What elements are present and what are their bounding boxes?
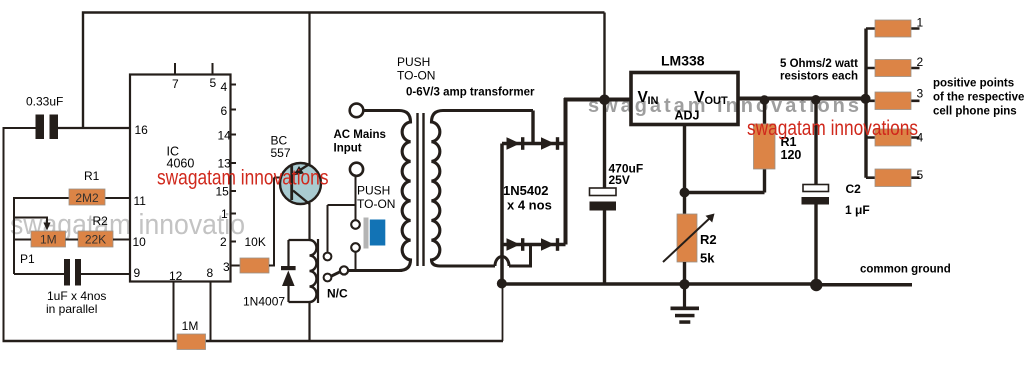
resistor R1 120 <box>754 124 802 169</box>
wire bridge left leg <box>500 144 504 280</box>
wire left rail <box>3 127 5 340</box>
svg-text:120: 120 <box>781 148 802 162</box>
svg-text:V: V <box>694 89 705 106</box>
svg-text:10: 10 <box>133 235 147 249</box>
wire top rail <box>83 13 605 129</box>
svg-text:5: 5 <box>210 76 217 90</box>
wire bridge top row <box>502 142 566 146</box>
diode D5 bridge bottom-right <box>541 238 555 251</box>
svg-text:557: 557 <box>271 146 291 160</box>
svg-text:22K: 22K <box>85 233 106 247</box>
svg-text:6: 6 <box>221 104 228 118</box>
wire Vout rail <box>738 97 866 101</box>
svg-text:AC Mains: AC Mains <box>334 129 386 141</box>
diode D3 bridge top-right <box>541 137 555 150</box>
svg-text:R2: R2 <box>700 232 717 247</box>
svg-text:5: 5 <box>917 168 924 182</box>
pin 5 stub <box>212 63 214 75</box>
svg-text:1uF x 4nos: 1uF x 4nos <box>47 289 106 303</box>
capacitor 0.33uF <box>26 95 63 140</box>
wire pot row to pin 10 <box>14 239 130 241</box>
resistor RB5 <box>866 168 924 187</box>
wire bridge left leg to bottom rail <box>502 284 504 342</box>
wire Vin rail <box>564 98 631 102</box>
svg-text:10K: 10K <box>245 235 266 249</box>
resistor R2 22K <box>78 214 113 247</box>
wire push button bottom to pole rail <box>355 252 357 271</box>
svg-text:3: 3 <box>223 260 230 274</box>
svg-text:12: 12 <box>169 269 183 283</box>
svg-text:C2: C2 <box>846 182 862 196</box>
svg-text:1N5402: 1N5402 <box>503 183 549 198</box>
svg-text:PUSH: PUSH <box>397 55 430 69</box>
svg-text:2: 2 <box>917 55 924 69</box>
wire 470uF top lead <box>603 100 606 188</box>
wire R2 bottom lead <box>683 262 686 284</box>
wire C2 bottom lead <box>814 205 817 286</box>
node ground junction R2 <box>679 279 689 289</box>
resistor 10K <box>240 235 269 273</box>
svg-text:3: 3 <box>917 87 924 101</box>
wire cap C-0.33uF left lead <box>4 127 36 129</box>
wire bridge right leg <box>564 98 568 245</box>
capacitor C2 1uF <box>802 182 870 217</box>
wire pin 9 row <box>14 273 130 275</box>
wire ground rail <box>502 282 912 286</box>
svg-text:1: 1 <box>221 207 228 221</box>
svg-text:Input: Input <box>334 143 362 155</box>
pin 14 stub <box>231 134 237 136</box>
svg-text:0-6V/3 amp transformer: 0-6V/3 amp transformer <box>406 87 535 99</box>
wire resistor bank bus <box>864 29 867 178</box>
wire emitter of Q1 to top rail <box>308 13 310 165</box>
svg-text:x 4 nos: x 4 nos <box>507 198 552 213</box>
svg-text:5k: 5k <box>700 251 715 266</box>
svg-text:14: 14 <box>218 129 232 143</box>
node bridge ground junction <box>497 279 507 289</box>
wire AC terminal 2 down with branch <box>328 177 356 253</box>
svg-text:ADJ: ADJ <box>675 109 700 123</box>
wire pin 3 to 10K <box>231 265 241 267</box>
wire P1 left vertical <box>13 197 15 274</box>
diode D1 1N4007 <box>243 240 296 309</box>
svg-text:R2: R2 <box>93 214 109 228</box>
wire top rail drop to bridge output <box>603 13 605 100</box>
svg-text:IN: IN <box>648 95 659 107</box>
transformer T1 secondary winding <box>432 111 534 267</box>
svg-text:in parallel: in parallel <box>46 302 97 316</box>
svg-text:1M: 1M <box>182 319 199 333</box>
potentiometer P1 1M <box>20 231 66 266</box>
svg-text:2M2: 2M2 <box>75 191 99 205</box>
pin 4 stub <box>231 84 237 86</box>
svg-text:TO-ON: TO-ON <box>357 197 395 211</box>
svg-text:11: 11 <box>134 194 147 208</box>
svg-text:of the respective: of the respective <box>933 92 1024 104</box>
wire relay pole to transformer primary <box>349 269 403 272</box>
wire R1 feedback row <box>685 169 765 193</box>
capacitor 1uF x 4nos <box>46 259 106 316</box>
svg-text:TO-ON: TO-ON <box>397 69 435 83</box>
pin 7 stub <box>174 63 176 75</box>
push button contacts <box>351 220 360 229</box>
wire collector of Q1 down to relay coil <box>308 203 310 241</box>
resistor RB2 <box>866 55 924 77</box>
push button actuator <box>364 218 369 249</box>
svg-text:OUT: OUT <box>705 95 729 107</box>
svg-text:1M: 1M <box>40 233 57 247</box>
diode D2 bridge top-left <box>507 137 521 150</box>
resistor R1 2M2 <box>69 169 105 205</box>
wire ADJ lead down <box>683 125 686 215</box>
svg-text:positive points: positive points <box>933 78 1014 90</box>
wire pin 12 down <box>173 282 175 341</box>
AC mains terminal 2 <box>350 163 363 176</box>
svg-text:resistors each: resistors each <box>780 71 858 83</box>
svg-text:7: 7 <box>172 77 179 91</box>
pin 15 stub <box>231 190 237 192</box>
svg-text:25V: 25V <box>609 173 630 187</box>
svg-text:16: 16 <box>135 123 149 137</box>
wire cap C-0.33uF right lead to pin 16 <box>58 127 130 129</box>
regulator U2 LM338 <box>631 53 738 125</box>
svg-text:cell phone pins: cell phone pins <box>933 106 1017 118</box>
relay coil RL1 <box>289 239 319 303</box>
wire bottom rail <box>3 340 504 342</box>
svg-text:LM338: LM338 <box>661 53 705 69</box>
capacitor C1 470uF 25V <box>590 162 644 211</box>
wire P1 wiper arrow <box>14 218 47 225</box>
svg-text:4: 4 <box>221 80 228 94</box>
node Vout-C2 junction <box>811 95 821 105</box>
wire secondary top to bridge <box>531 111 534 144</box>
wire pin 8 down <box>210 282 212 341</box>
svg-text:8: 8 <box>207 266 214 280</box>
node C2 ground junction <box>810 279 822 291</box>
op-amp U1 IC 4060 box <box>130 75 231 282</box>
wire R1 row to pin 11 <box>14 197 130 199</box>
svg-text:R1: R1 <box>84 169 100 183</box>
wire C2 top lead <box>814 99 817 185</box>
svg-text:2: 2 <box>220 235 227 249</box>
transistor Q1 BC557 <box>271 134 322 205</box>
wire 10K to base of Q1 <box>269 178 292 267</box>
svg-text:1 μF: 1 μF <box>845 203 870 217</box>
pin 2 stub <box>231 241 237 243</box>
transformer T1 primary winding <box>349 111 411 271</box>
node ADJ junction <box>680 188 690 198</box>
svg-text:N/C: N/C <box>327 287 348 301</box>
wire R1 top lead <box>763 99 766 125</box>
AC mains terminal 1 <box>350 104 364 118</box>
svg-text:5 Ohms/2 watt: 5 Ohms/2 watt <box>780 58 858 70</box>
potentiometer R2 5k <box>663 214 717 266</box>
svg-text:9: 9 <box>134 266 141 280</box>
pin 13 stub <box>231 162 237 164</box>
wire secondary bottom hop over bridge left leg <box>495 245 531 268</box>
node Vout-R1 junction <box>760 95 770 105</box>
svg-text:swagatam innovations: swagatam innovations <box>747 117 918 140</box>
resistor 1M bottom <box>177 319 206 350</box>
wire bridge bottom row <box>502 243 566 247</box>
pin 6 stub <box>231 109 237 111</box>
transformer T1 core <box>416 113 418 266</box>
wire relay coil bottom to bottom rail <box>308 302 310 341</box>
svg-text:common ground: common ground <box>860 264 951 276</box>
svg-text:swagatam innovations: swagatam innovations <box>157 167 329 190</box>
svg-text:PUSH: PUSH <box>357 184 390 198</box>
ground symbol <box>671 284 700 324</box>
node bridge output junction <box>599 95 610 106</box>
svg-text:1N4007: 1N4007 <box>243 295 285 309</box>
pin 1 stub <box>231 213 237 215</box>
svg-text:1: 1 <box>917 16 924 30</box>
resistor RB3 <box>866 87 924 110</box>
node Vout-bus junction <box>861 94 871 104</box>
resistor RB1 <box>866 16 924 38</box>
resistor RB4 <box>866 129 924 146</box>
wire 470uF bottom lead <box>603 211 606 285</box>
relay contact N/C <box>324 253 349 301</box>
svg-text:P1: P1 <box>20 252 35 266</box>
diode D4 bridge bottom-left <box>507 238 521 251</box>
svg-text:0.33uF: 0.33uF <box>26 95 63 109</box>
